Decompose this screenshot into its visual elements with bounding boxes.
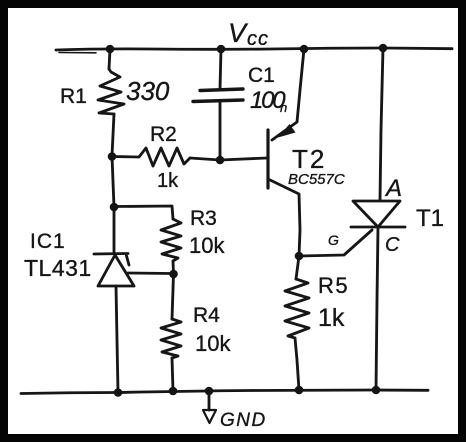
svg-text:C1: C1: [248, 64, 275, 87]
wire T1 cathode down: [376, 227, 378, 390]
svg-text:R4: R4: [193, 304, 220, 327]
wire T1 gate: [299, 230, 372, 256]
svg-text:10k: 10k: [195, 331, 231, 356]
label 100n: [250, 87, 287, 115]
wire T2 emitter: [272, 49, 304, 140]
wire GND bottom rail: [21, 390, 428, 394]
resistor R1: [98, 69, 124, 114]
resistor R4: [161, 319, 181, 358]
resistor R5: [285, 279, 309, 338]
wire C1 bottom: [219, 102, 222, 160]
wire R4 top: [172, 274, 174, 319]
capacitor C1: [200, 89, 243, 91]
svg-text:TL431: TL431: [24, 255, 92, 281]
node dot gnd R5: [295, 386, 304, 395]
label Vcc: [228, 18, 269, 50]
svg-text:GND: GND: [220, 410, 267, 431]
node dot collector-gate: [295, 252, 304, 261]
wire TL431 anode down: [116, 286, 118, 392]
transistor T2 emitter arrowhead: [278, 124, 296, 138]
node dot Vcc-R1: [106, 45, 115, 54]
wire C1 top: [220, 49, 221, 89]
wire Vcc top rail: [56, 48, 452, 50]
svg-text:A: A: [384, 175, 402, 202]
node dot gnd stem: [205, 387, 214, 396]
wire GND stem: [208, 391, 211, 410]
svg-text:330: 330: [126, 76, 170, 106]
node dot R2 left: [108, 152, 117, 161]
svg-text:10k: 10k: [189, 233, 225, 258]
wire R5 bottom: [295, 338, 299, 390]
svg-text:IC1: IC1: [30, 230, 66, 253]
node dot C1-R2: [216, 156, 225, 165]
wire left branch to TL431: [113, 207, 116, 253]
svg-text:BC557C: BC557C: [288, 171, 345, 188]
svg-text:R2: R2: [150, 123, 177, 146]
wire R5 top: [296, 256, 299, 279]
wire left branch R1 top: [109, 49, 110, 69]
node dot Vcc-T2: [300, 45, 309, 54]
node dot gnd TL431: [114, 388, 123, 397]
svg-text:T1: T1: [416, 205, 444, 232]
thyristor T1 cathode bar: [351, 226, 405, 229]
wire R4 bottom: [172, 358, 173, 391]
node dot R3 tee: [110, 203, 119, 212]
wire TL431 ref: [128, 272, 172, 275]
ground symbol: [203, 410, 216, 423]
svg-text:n: n: [280, 100, 287, 115]
wire T2 collector: [268, 179, 300, 256]
wire T1 anode: [380, 48, 383, 200]
wire R3 bottom: [172, 261, 175, 274]
svg-text:R3: R3: [190, 207, 217, 230]
svg-text:R1: R1: [60, 85, 87, 108]
node dot divider: [169, 270, 178, 279]
transistor Q T2 base bar: [266, 130, 269, 188]
IC TL431 triangle: [98, 255, 134, 286]
IC TL431 cathode bar: [94, 254, 129, 266]
svg-text:1k: 1k: [318, 304, 345, 332]
node dot Vcc-C1: [217, 45, 226, 54]
svg-text:C: C: [385, 234, 400, 256]
svg-text:V: V: [228, 18, 249, 48]
resistor R2: [112, 148, 190, 166]
node dot gnd R4: [169, 387, 178, 396]
svg-text:T2: T2: [292, 144, 326, 174]
node dot Vcc-T1: [379, 44, 388, 53]
svg-text:cc: cc: [247, 28, 269, 50]
thyristor T1 triangle: [353, 201, 400, 227]
resistor R3: [161, 219, 181, 261]
svg-text:1k: 1k: [157, 170, 179, 192]
wire to R3: [114, 206, 173, 219]
node dot gnd T1: [372, 386, 381, 395]
svg-text:G: G: [328, 232, 339, 248]
wire R2 to T2 base: [190, 158, 267, 160]
wire overlap stroke at rail start: [59, 52, 96, 54]
svg-text:R5: R5: [318, 273, 349, 298]
wire left branch mid: [112, 114, 114, 207]
